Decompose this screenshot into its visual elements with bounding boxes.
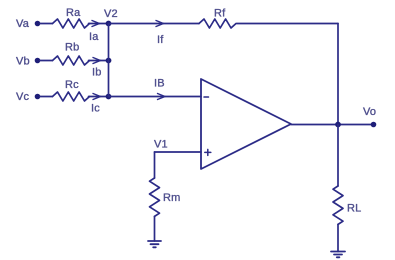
wire RL to ground xyxy=(337,224,339,251)
wire Va to Ra xyxy=(40,23,53,25)
svg-text:Rm: Rm xyxy=(163,192,181,204)
svg-text:Ic: Ic xyxy=(91,103,100,115)
wire output node down to RL xyxy=(337,125,339,187)
resistor Rc xyxy=(53,79,90,101)
resistor Rf xyxy=(199,8,236,29)
resistor Ra xyxy=(53,7,90,28)
wire Rf to right corner xyxy=(237,23,338,25)
wire bus to op-amp inverting input with current arrow IB xyxy=(109,78,202,100)
wire Rb to bus with current arrow Ib xyxy=(89,58,109,79)
wire op-amp output to Vo xyxy=(291,124,374,126)
svg-text:V2: V2 xyxy=(104,8,118,20)
node V2 junction xyxy=(104,8,118,26)
junction Ic on bus xyxy=(106,94,112,100)
wire Rm to ground xyxy=(154,216,156,241)
svg-text:Vb: Vb xyxy=(16,56,30,68)
node output junction xyxy=(335,122,341,128)
svg-text:Rc: Rc xyxy=(65,79,79,91)
node Vc terminal xyxy=(16,91,40,103)
ground (below RL) xyxy=(331,252,345,258)
junction Ib on bus xyxy=(106,58,112,64)
node Vb terminal xyxy=(16,56,40,68)
svg-text:Ib: Ib xyxy=(92,67,102,79)
svg-text:Vc: Vc xyxy=(16,91,30,103)
svg-text:Rf: Rf xyxy=(214,8,226,20)
wire V2 to Rf with current arrow If xyxy=(109,21,200,47)
resistor RL xyxy=(333,186,361,224)
svg-text:RL: RL xyxy=(347,203,361,215)
node Vo terminal xyxy=(363,106,376,127)
wire feedback vertical down to output node xyxy=(337,24,339,125)
resistor Rb xyxy=(53,42,90,66)
svg-text:Vo: Vo xyxy=(363,106,376,118)
svg-text:Rb: Rb xyxy=(65,42,79,54)
wire Vc to Rc xyxy=(40,96,53,98)
ground (below Rm) xyxy=(148,241,161,247)
svg-text:IB: IB xyxy=(154,78,165,90)
wire vertical bus V2 xyxy=(108,24,110,97)
wire Rc to bus with current arrow Ic xyxy=(89,94,109,115)
svg-text:Ia: Ia xyxy=(89,31,99,43)
svg-text:Va: Va xyxy=(16,18,30,30)
resistor Rm xyxy=(150,178,181,216)
wire Ra to node V2 with current arrow Ia xyxy=(89,21,109,44)
op-amp U1 xyxy=(201,79,291,169)
node V1 and wire to non-inverting input xyxy=(154,139,201,179)
svg-text:If: If xyxy=(157,34,164,46)
node Va terminal xyxy=(16,18,40,30)
wire Vb to Rb xyxy=(40,60,53,62)
svg-text:Ra: Ra xyxy=(66,7,81,19)
svg-text:V1: V1 xyxy=(154,139,168,151)
